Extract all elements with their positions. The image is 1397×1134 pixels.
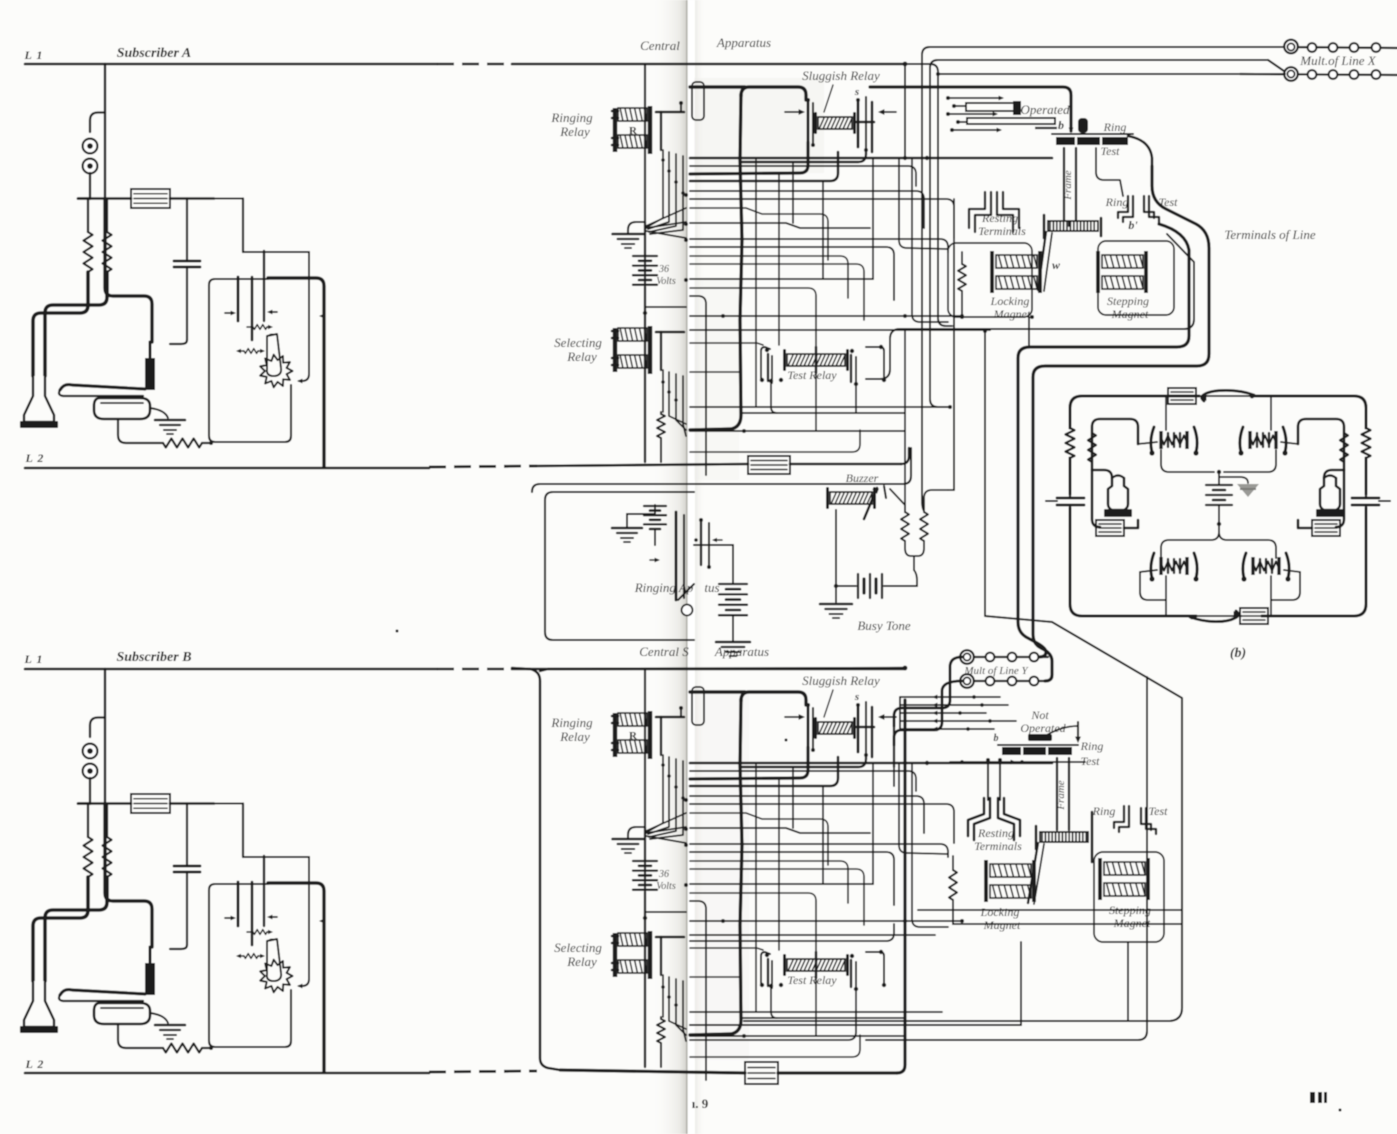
corner box at fold top [690,296,706,475]
svg-text:Mult of Line Y: Mult of Line Y [963,665,1029,677]
op-relay Ringing Relay top coil [613,108,618,152]
busy tone battery [836,585,856,587]
buzzer coil [830,492,872,504]
heavy wire terminals of line 2 [1033,166,1209,681]
b bank contact bar [1056,137,1128,145]
inner loop (b) right [1298,419,1344,470]
node L2 B: main line [25,1072,429,1075]
contact bracket test relay right bottom [866,952,884,985]
svg-text:Selecting: Selecting [554,940,602,955]
vertical riser x793 bottom [792,767,794,828]
dial impulse cam B (gear wheel) [260,960,292,993]
svg-text:Relay: Relay [566,954,597,969]
dial contact bar 1 A [237,277,240,321]
resistor B left (line winding) [84,837,93,877]
svg-text:Magnet: Magnet [993,307,1031,321]
vertical riser x899 bottom [899,763,948,854]
wire bottom bus y910 [918,909,1182,911]
wire A ringer branch [90,113,105,133]
wire B right resistor drop [106,804,108,838]
resistor in frame box top [961,252,963,264]
svg-text:s: s [854,691,859,703]
svg-text:Resting: Resting [977,826,1014,840]
wire bus y288 bottom [690,893,816,957]
hook switch lever A [60,385,145,390]
armature test relay right top [850,355,852,382]
heavy contact bus bottom [741,755,866,767]
heavy vertical x903 bottom [897,700,905,1073]
wire A heavy hook feed [105,199,152,342]
transmitter A (carbon microphone) [94,398,150,419]
wire bus y223 bottom [690,828,870,833]
braid vertical x894 extension [893,726,895,767]
op-relay Selecting Relay top coil [613,328,618,372]
wire B coil line horizontal [78,802,131,805]
svg-text:L 1: L 1 [24,48,44,62]
inner loop (b) left [1092,419,1138,470]
wire bus y158 heavy top [690,157,1052,160]
svg-text:L 2: L 2 [25,451,45,465]
resting terminals symbol bottom [968,798,984,836]
armature Ringing Relay bottom [656,716,684,719]
operated contact fan [948,97,1002,99]
svg-text:L 1: L 1 [24,652,44,666]
wire fold dots top [684,193,688,197]
wire A ringer to coil line [89,173,91,199]
arrow into sluggish left bottom [785,716,802,718]
wire bus y191 top [690,191,924,228]
wire fold dots bottom [684,798,688,802]
contact bracket test relay left bottom [761,952,770,985]
wire bus y372 top [690,371,740,373]
relay Test Relay top coil [787,354,845,366]
dial contact bar 3 A [263,251,265,321]
svg-text:Stepping: Stepping [1107,294,1149,308]
svg-text:Test: Test [1101,144,1121,158]
resistor A microphone shunt [163,439,202,448]
magnet Stepping Magnet top coil [1096,251,1100,293]
stepping magnet frame box top [1098,241,1174,315]
dial off-normal springs lower A [236,349,241,353]
svg-text:Magnet: Magnet [1113,916,1151,930]
wire A heavy loop to receiver outer [33,272,88,376]
wire stepping box drop [1127,942,1129,1021]
induction coil A subscriber [131,189,170,208]
svg-text:Locking: Locking [990,294,1030,308]
resistor bottom frame box [952,856,954,870]
svg-text:Frame: Frame [1055,780,1067,810]
wire B transmitter to ground [150,1013,168,1023]
wire bank bottom left lead [950,761,1085,763]
wiper arm top [1038,232,1046,290]
hook switch (b) top [1196,395,1254,397]
test relay core rod top [815,347,818,373]
capacitor B plate lower [174,871,200,874]
svg-text:Not: Not [1030,708,1049,722]
wire bus y191 bottom [690,796,924,833]
relay coil (b) bottom-left [1159,557,1162,575]
wire bus y239 top [690,239,948,252]
fold-cut armature rect top [692,82,704,120]
relay Test Relay bottom coil [787,959,845,971]
svg-text:Frame: Frame [1062,170,1074,200]
heavy bottom line with heat coil [560,1070,745,1073]
svg-text:36: 36 [658,869,669,880]
svg-text:b: b [994,733,999,744]
resistor inner loop right [1340,433,1348,462]
wire bus y330 bottom [690,934,935,936]
magnet Stepping Magnet bottom coil [1098,858,1102,900]
svg-text:Central: Central [640,38,680,53]
arrow into sluggish left top [785,111,802,113]
wire bottom bus y924 [953,923,1182,925]
svg-text:Terminals: Terminals [974,839,1022,853]
wire bus y256 top [690,256,848,298]
wire bus y199 top [690,199,954,238]
fold-cut armature rect bottom [692,687,704,725]
svg-text:Volts: Volts [656,881,676,892]
ground central top [613,233,644,236]
induction coil (b) bottom edge [1240,608,1268,624]
vertical riser x912 bottom [912,763,948,927]
svg-text:b: b [1058,118,1064,132]
heavy wire from fold top [690,85,745,88]
ground B subscriber set [155,1024,185,1027]
long risers bottom right [1020,942,1022,1025]
svg-text:R: R [629,730,638,742]
wire bus y264 top [690,264,864,320]
long vertical x985 crossing middle [985,332,1052,622]
resistor (b) right edge [1362,428,1371,458]
wire bus y223 top [690,223,870,228]
wire bus y199 bottom [690,804,954,843]
receiver (b) right hanger [1324,470,1344,478]
wires into resting terminals bottom [987,760,989,800]
relay coil (b) top-left [1159,431,1162,449]
wire A heavy loop to receiver inner [45,272,107,376]
wire bus y256 bottom [690,861,848,903]
wire fold y343 top [690,343,763,345]
wire bus y407 bottom [690,1011,942,1013]
svg-text:Apparatus: Apparatus [714,644,769,659]
capacitor B plate upper [174,865,200,868]
receiver A (watch-case receiver bell) [24,376,54,422]
bracket test top [1144,196,1154,218]
wire B heavy loop to receiver inner [45,877,107,981]
test relay core rod bottom [815,952,818,978]
wire buzzer contact riser [890,489,905,512]
wire bus y166 top [690,166,916,186]
heat coil on L2 top [748,456,790,474]
wire B transmitter branch down [118,1024,163,1048]
resistor busy pair right [920,512,928,541]
armature Selecting Relay bottom [656,936,684,939]
leader line sluggish bottom [824,690,833,717]
svg-text:L 2: L 2 [25,1057,45,1071]
wire test relay bottom bus top [741,412,905,414]
capacitor (b) right [1352,497,1379,500]
svg-text:Relay: Relay [559,729,590,744]
svg-text:Selecting: Selecting [554,335,602,350]
svg-text:Apparatus: Apparatus [716,35,771,50]
wires Ringing Relay contacts bottom [647,755,663,832]
svg-text:Magnet: Magnet [983,918,1021,932]
vertical riser x779 top [778,174,780,345]
vertical riser x912 top [912,158,948,322]
dial off-normal springs upper A [247,326,253,328]
wire A resistor to dial box [202,442,209,444]
wire A transmitter to ground [150,408,168,418]
arrow into sluggish right bottom [882,716,896,718]
ground A subscriber set [155,419,185,422]
receiver B (watch-case receiver bell) [24,981,54,1027]
dial arrow into bar3 B [270,916,277,918]
svg-text:Sluggish Relay: Sluggish Relay [802,68,880,83]
receiver (b) left hanger [1092,470,1112,478]
armature sluggish left top [807,100,810,142]
battery ringing apparatus small [654,505,656,514]
frame vertical conductor [1063,148,1065,221]
svg-text:Ring: Ring [1080,739,1104,753]
svg-text:Relay: Relay [559,124,590,139]
wire battery top link [694,544,733,546]
ringing apparatus enclosure [545,492,694,640]
heavy bus to b bank [870,87,1071,131]
outline polygon of bottom apparatus [744,622,1182,1021]
mult of line X row 1 circles [1285,47,1397,48]
svg-text:Terminals of Line: Terminals of Line [1224,227,1315,242]
wires (b) coils to bottom edge [1165,576,1167,616]
inner boundary vertical x1147 [866,677,1147,1040]
resistor (b) left edge [1066,428,1075,458]
svg-text:(b): (b) [1230,646,1246,661]
operated bar lower [967,118,1055,124]
braid vertical x900 fan tie [899,697,901,729]
heavy wire terminals of line 1 [1018,224,1189,657]
wire A heavy wire to L2 [268,278,324,467]
wires (b) coil ends to loops [1138,442,1157,444]
wire B ringer branch [90,718,105,738]
buzzer left wire [835,510,837,586]
wiper arm bottom [1028,843,1038,903]
riser x954 middle segment [953,246,955,490]
svg-text:Subscriber A: Subscriber A [117,46,192,61]
wire busy feed from top [904,330,906,505]
svg-text:Locking: Locking [980,905,1020,919]
wire bus y372 bottom [690,976,740,978]
locking magnet frame box top [948,243,1032,317]
relay coil (b) bottom-right [1251,557,1254,575]
wire boundary to magnet frame [866,234,1194,379]
svg-text:Relay: Relay [566,349,597,364]
armature test relay left bottom [767,959,769,986]
b bank bottom top line [998,744,1078,746]
wire bus y166 bottom [690,771,916,791]
dial off-normal springs lower B [236,954,241,958]
wire bottom bus y1025 [690,1024,1021,1026]
dial top link B [243,856,309,858]
wire B coil line to dial [242,804,244,858]
dial contact bar 1 B [237,882,240,926]
stray dot [1339,1109,1342,1112]
b bank plunger cap [1078,118,1088,133]
operated bar upper [966,103,1016,111]
svg-text:Ringing: Ringing [550,715,593,730]
capacitor (b) left [1057,497,1084,500]
bracket test bottom [1141,808,1151,830]
ground busy tone [835,586,837,602]
wire A left resistor drop [87,199,89,233]
sluggish contact T bar top [856,121,874,124]
wire bus y407 top [690,406,942,408]
svg-text:Ring: Ring [1105,195,1129,209]
svg-text:ı. 9: ı. 9 [692,1096,709,1111]
dial contact bar 2 A [251,277,254,340]
ringer gong lower A [83,159,98,174]
wire battery branch to fold top [645,306,686,308]
armature test relay right bottom [850,960,852,987]
b bank bottom plunger cap [1028,734,1052,741]
resistor inner loop left [1088,433,1096,462]
wire bus y330 top [690,329,990,331]
svg-text:36: 36 [658,264,669,275]
dial off-normal springs upper B [247,931,253,933]
sluggish contact T bar bottom [856,726,874,729]
heavy loop into mult Y rows left [902,657,962,708]
vertical riser from L1 junction [904,64,906,158]
mult of line X row 2 circles [1240,74,1397,75]
wire A capacitor lead [186,199,188,262]
svg-text:Test: Test [1081,754,1101,768]
vertical riser x823 bottom [822,786,824,884]
wire under L2 horizontal [532,448,911,492]
not operated contact fan [900,696,1000,698]
dial top link A [243,251,309,253]
transmitter B (carbon microphone) [94,1003,150,1024]
b bank bottom contact bar [1002,747,1072,755]
svg-text:Test Relay: Test Relay [787,973,837,987]
heavy wire from fold bottom [690,690,745,693]
wire L2 end rise top [901,448,909,464]
wire B resistor to dial box [202,1047,209,1049]
vertical riser x873 bottom [872,763,874,884]
wire heavy bank to test arc [1128,136,1152,166]
armature Selecting Relay top [656,331,684,334]
wire B heavy loop to receiver outer [33,877,88,981]
wire bottom bus y941 [690,924,894,941]
wire bus y247 top [690,247,894,300]
wire A coil line horizontal [78,197,131,200]
armature test relay left top [767,354,769,381]
page number mark [1310,1092,1315,1103]
op-relay Ringing Relay bottom coil [613,713,618,757]
dial right return wire B [299,857,309,986]
wire bus y279 top [690,278,873,280]
wire L2 inner top [537,464,748,466]
wire ground stem bottom [628,827,645,839]
op-relay Selecting Relay bottom coil [613,933,618,977]
corner box at fold bottom [690,901,706,1080]
wire fold y343 bottom [690,948,763,950]
capacitor A plate upper [174,260,200,263]
battery ringing apparatus main [732,545,734,583]
vertical riser x793 top [792,162,794,223]
ground central bottom [613,838,644,841]
dial pawl capsule B [267,939,281,981]
dial contact bar 3 B [263,856,265,926]
svg-text:s: s [854,86,859,98]
wire A coil line to dial [242,199,244,253]
wire bus y158 heavy bottom [690,762,1052,765]
svg-text:tus: tus [704,580,719,595]
wire bus y247 bottom [690,852,894,905]
wire B ringer to coil line [89,778,91,804]
vertical riser x779 bottom [778,779,780,950]
heavy loop over sluggish top [741,87,806,100]
bracket ring prime [1118,196,1128,218]
wires Ringing Relay contacts top [647,150,663,227]
wire test relay bottom bus bottom [741,1017,905,1019]
wire bus y452 bottom [690,1035,860,1057]
ground ringing apparatus [612,527,642,530]
wire B L1 inner continuation [540,668,905,671]
armature sluggish right bottom [857,705,860,752]
armature sluggish right top [857,100,860,147]
ground below main battery [732,616,734,641]
battery (b) center [1206,484,1232,486]
capacitor A plate lower [174,266,200,269]
wire bus y208 bottom [690,813,828,865]
dial right return wire A [299,252,309,381]
wire test relay risers top [771,383,777,413]
svg-text:w: w [1052,258,1061,272]
heavy loop over sluggish bottom [741,692,806,705]
svg-text:Mult.of Line X: Mult.of Line X [1299,53,1377,68]
svg-text:Sluggish Relay: Sluggish Relay [802,673,880,688]
vertical riser x899 top [899,158,948,249]
svg-text:Volts: Volts [656,276,676,287]
wires relay fan to fold top [646,208,686,226]
svg-text:Ring: Ring [1103,120,1127,134]
resistor B microphone shunt [163,1044,202,1053]
mult of line Y row 2 [962,680,1048,682]
wires (b) center bottom divergence [1217,522,1221,526]
relay Sluggish top coil [818,117,852,129]
wire bus y316 top [690,315,960,317]
relay Sluggish bottom coil [818,722,852,734]
resistor below selecting relay bottom [660,1017,662,1019]
relay coil (b) top-right [1248,431,1251,449]
resting terminals symbol top [969,192,985,228]
dial pawl pivot A [267,334,276,343]
bracket ring bottom [1114,806,1124,828]
buzzer armature [864,488,877,519]
svg-text:Subscriber B: Subscriber B [116,650,191,665]
wire A drop from L1 [104,64,106,199]
node L2 A: main line [25,467,429,470]
heavy contact bus top [741,150,866,162]
svg-text:Buzzer: Buzzer [846,471,879,485]
wires Selecting Relay contacts top [662,370,664,412]
dial box B [209,884,268,1047]
svg-text:Resting: Resting [981,211,1018,225]
wires (b) coils to top edge [1165,396,1167,430]
wire bus y208 top [690,208,828,260]
wire bus y239 bottom [690,844,948,857]
ringer gong lower B [83,764,98,779]
vertical riser x873 top [872,158,874,279]
heavy bottom loop risers [894,708,902,726]
